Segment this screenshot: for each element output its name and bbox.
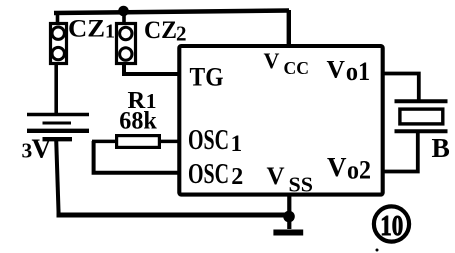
wire buzzer bottom to Vo2 bbox=[383, 131, 418, 172]
wire VSS pin drop bbox=[287, 195, 291, 229]
battery BT 3V plate3 long bbox=[27, 129, 89, 133]
wire R1 right lead to OSC1 bbox=[159, 140, 179, 144]
svg-text:10: 10 bbox=[380, 210, 403, 242]
svg-text:B: B bbox=[432, 132, 450, 163]
wire R1 loop down to OSC2 bbox=[94, 141, 179, 173]
buzzer B top plate bbox=[395, 99, 448, 103]
svg-text:CZ: CZ bbox=[68, 15, 105, 42]
svg-text:1: 1 bbox=[105, 21, 115, 43]
node junction dot above CZ2 bbox=[118, 6, 129, 17]
IC U1 body bbox=[179, 46, 382, 195]
svg-text:V: V bbox=[327, 152, 347, 182]
svg-text:CZ: CZ bbox=[144, 17, 177, 44]
svg-text:V: V bbox=[267, 163, 285, 190]
svg-text:CC: CC bbox=[284, 58, 310, 78]
figure number circle 10 bbox=[374, 206, 409, 241]
svg-text:o2: o2 bbox=[347, 156, 371, 185]
wire CZ2 bottom to TG pin bbox=[124, 63, 179, 74]
wire CZ1 bottom to battery positive bbox=[54, 63, 58, 114]
svg-text:V: V bbox=[264, 48, 280, 73]
buzzer B bottom plate bbox=[395, 129, 448, 133]
svg-text:V: V bbox=[327, 55, 346, 84]
svg-text:OSC: OSC bbox=[188, 125, 229, 156]
svg-text:o1: o1 bbox=[346, 57, 370, 86]
battery BT 3V plate1 long bbox=[27, 113, 89, 116]
svg-text:1: 1 bbox=[231, 131, 243, 156]
wire Vo1 to buzzer top bbox=[383, 74, 419, 102]
svg-text:2: 2 bbox=[231, 164, 243, 190]
svg-text:TG: TG bbox=[190, 62, 224, 91]
battery BT 3V plate2 short bbox=[43, 122, 72, 125]
node junction dot at VSS/ground bbox=[283, 211, 295, 223]
svg-text:2: 2 bbox=[176, 22, 187, 46]
speck artifact bbox=[376, 249, 379, 252]
battery BT 3V plate4 short bbox=[43, 137, 73, 141]
svg-text:V: V bbox=[32, 133, 52, 164]
connector CZ1 body bbox=[51, 24, 67, 64]
svg-text:68k: 68k bbox=[119, 108, 157, 135]
wire top bus (VCC rail from CZ1 to VCC pin corner) bbox=[54, 11, 289, 14]
wire CZ2 top stub bbox=[122, 12, 126, 25]
ground symbol bar bbox=[273, 230, 303, 236]
buzzer B piezo element bbox=[400, 109, 443, 124]
wire CZ1 top stub bbox=[56, 12, 60, 25]
resistor R1 body bbox=[117, 136, 160, 148]
connector CZ2 body bbox=[117, 24, 136, 64]
svg-text:SS: SS bbox=[289, 172, 314, 196]
wire VCC pin drop bbox=[287, 10, 291, 46]
wire R1 left lead bbox=[92, 140, 117, 144]
wire bottom ground rail bbox=[57, 213, 290, 218]
svg-text:OSC: OSC bbox=[188, 159, 229, 190]
wire battery negative down lead bbox=[56, 140, 58, 214]
